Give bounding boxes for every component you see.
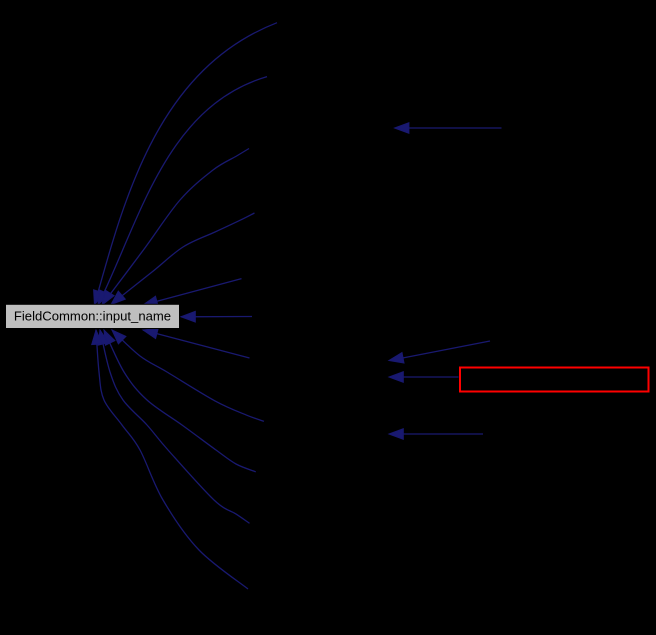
arrowhead e4 (111, 291, 125, 304)
node FieldCommon::input_name (grey) (6, 304, 180, 328)
arrowhead e8 (112, 330, 126, 344)
arrow A (409, 127, 502, 129)
svg-text:FieldCommon::input_name: FieldCommon::input_name (14, 308, 171, 323)
edge e2 (98, 77, 267, 305)
arrowhead e11 (92, 330, 103, 345)
edge e5 (143, 279, 242, 305)
arrowhead D (389, 429, 403, 440)
arrowhead e3 (102, 290, 114, 305)
arrowhead A (395, 123, 409, 134)
arrowhead e10 (98, 330, 108, 345)
arrowhead B (389, 353, 404, 363)
edge e6 (181, 316, 252, 318)
edge e1 (95, 23, 278, 305)
arrowhead e6 (181, 311, 195, 322)
arrowhead e5 (143, 296, 158, 306)
edge e9 (104, 330, 256, 472)
arrow D (403, 433, 484, 435)
arrowhead C (389, 372, 403, 383)
edge e11 (96, 330, 248, 589)
edge e7 (143, 330, 250, 358)
edge e4 (111, 213, 255, 305)
edge e3 (102, 149, 249, 306)
arrow C (403, 376, 459, 378)
edge e10 (100, 330, 250, 523)
node red truncated box (460, 368, 649, 392)
arrowhead e9 (104, 330, 115, 345)
arrow B (402, 341, 490, 358)
arrowhead e1 (94, 290, 104, 305)
arrowhead e7 (143, 328, 158, 338)
edge e8 (112, 330, 264, 421)
arrowhead e2 (98, 290, 109, 305)
